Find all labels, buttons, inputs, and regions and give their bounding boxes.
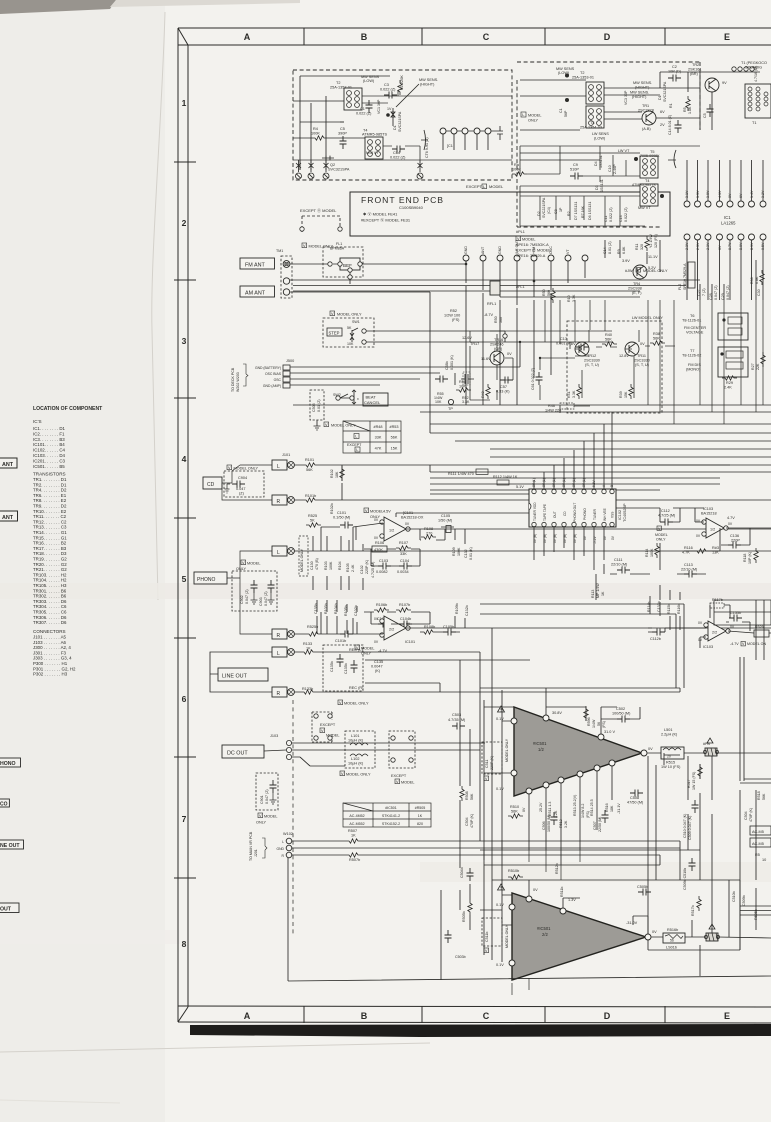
svg-text:Q2: Q2	[330, 163, 335, 167]
wire lineout	[210, 652, 530, 692]
svg-text:IC201. . . . . . C3: IC201. . . . . . C3	[33, 458, 66, 463]
svg-text:R511b: R511b	[560, 887, 564, 897]
svg-text:100K: 100K	[329, 561, 333, 570]
svg-text:C510b: C510b	[732, 891, 736, 902]
label MODEL ONLY boxed	[655, 526, 668, 542]
arrows beat	[352, 390, 356, 404]
svg-text:IC102. . . . . . C4: IC102. . . . . . C4	[33, 448, 66, 453]
svg-text:R113: R113	[591, 590, 595, 598]
svg-text:12.8V: 12.8V	[619, 354, 629, 358]
svg-text:OSC: OSC	[274, 378, 282, 382]
svg-text:C901: C901	[260, 795, 264, 804]
left strip row ticks	[174, 162, 196, 878]
label M MODEL 4.5V ONLY	[364, 508, 391, 519]
svg-text:STK4152-2: STK4152-2	[382, 822, 400, 826]
label M MODEL ONLY (step)	[330, 311, 362, 317]
svg-text:C112: C112	[661, 509, 670, 513]
cut box NE OUT	[0, 840, 24, 849]
svg-text:0.1V: 0.1V	[496, 903, 504, 907]
svg-text:IC101: IC101	[405, 640, 415, 644]
svg-text:C30: C30	[757, 289, 761, 296]
svg-text:TR305. . . . . . C6: TR305. . . . . . C6	[33, 610, 67, 615]
svg-text:C511: C511	[485, 760, 489, 768]
svg-text:GND (AMP): GND (AMP)	[263, 384, 281, 388]
svg-text:0V: 0V	[652, 930, 657, 934]
svg-text:C14 8.01 (Z): C14 8.01 (Z)	[668, 115, 672, 135]
svg-text:R: R	[277, 691, 281, 697]
svg-text:10P (D): 10P (D)	[668, 70, 682, 74]
svg-text:0.0082: 0.0082	[376, 570, 388, 574]
svg-text:J300 . . . . . . . A2, 4: J300 . . . . . . . A2, 4	[33, 645, 71, 650]
vertical fold line	[152, 12, 165, 600]
svg-text:C510 0.047 (K): C510 0.047 (K)	[683, 814, 687, 838]
svg-text:R36: R36	[750, 277, 754, 284]
svg-text:MODEL ONLY: MODEL ONLY	[344, 702, 369, 706]
svg-text:4.7/16 (M): 4.7/16 (M)	[754, 66, 758, 82]
wires phono row	[294, 523, 771, 590]
IC1 left bracket wire	[668, 150, 676, 168]
svg-text:R104: R104	[338, 561, 342, 570]
box FM ANT	[240, 258, 275, 269]
frame bottom lines	[178, 1006, 771, 1007]
svg-text:TR13. . . . . . . C3: TR13. . . . . . . C3	[33, 525, 67, 530]
svg-text:1/50 (M): 1/50 (M)	[438, 519, 453, 523]
svg-text:MODEL ONLY: MODEL ONLY	[300, 548, 304, 572]
IC1 pin stems up	[687, 160, 763, 201]
svg-text:FL1: FL1	[336, 242, 342, 246]
label M MODEL ONLY dc	[340, 771, 371, 777]
svg-text:L102: L102	[351, 757, 359, 761]
svg-text:(BR): (BR)	[690, 72, 699, 76]
pins triangle1 top edge	[543, 715, 549, 721]
svg-text:5K: 5K	[310, 519, 315, 523]
svg-text:C130: C130	[310, 561, 314, 570]
wires mid strip verticals	[605, 240, 756, 300]
svg-text:TR11: TR11	[637, 354, 646, 358]
svg-text:BA15218: BA15218	[701, 512, 717, 516]
svg-text:0.047 (Z): 0.047 (Z)	[245, 589, 249, 604]
svg-text:MW VT: MW VT	[366, 151, 379, 155]
svg-text:0V: 0V	[374, 518, 379, 522]
pins triangle2 top edge	[526, 896, 532, 902]
IC1 lower pin stems down	[687, 240, 763, 300]
svg-text:9V: 9V	[722, 81, 727, 85]
wires mid box horizontals	[293, 90, 512, 170]
crease line below bar	[0, 1043, 430, 1052]
pin drops triangle2 bottom	[512, 978, 529, 995]
svg-text:MODEL: MODEL	[655, 533, 668, 537]
connector RFL1 box	[490, 281, 500, 295]
svg-text:T2: T2	[336, 81, 340, 85]
svg-text:R510: R510	[510, 805, 519, 809]
svg-text:J201: J201	[254, 849, 258, 857]
svg-text:0.022 (Z): 0.022 (Z)	[390, 156, 406, 160]
IC102 box	[529, 489, 616, 527]
svg-text:T6: T6	[690, 314, 694, 318]
box DC OUT	[222, 745, 264, 758]
svg-text:SVC321SPA: SVC321SPA	[328, 168, 350, 172]
box BEAT CANCEL	[363, 393, 388, 406]
svg-text:6V: 6V	[660, 110, 665, 114]
grid numbers left	[182, 98, 187, 949]
dashed box C511	[482, 742, 502, 774]
svg-text:22/10 (M): 22/10 (M)	[611, 563, 628, 567]
svg-text:R50: R50	[542, 289, 546, 296]
svg-text:R5: R5	[683, 107, 687, 112]
svg-text:(E, F): (E, F)	[632, 291, 642, 295]
svg-text:LINE OUT: LINE OUT	[222, 674, 248, 680]
svg-text:1.4V: 1.4V	[750, 190, 754, 198]
svg-text:2/2: 2/2	[389, 628, 394, 632]
svg-text:MODEL: MODEL	[522, 238, 536, 242]
svg-text:E: E	[724, 32, 730, 42]
svg-text:5.1V: 5.1V	[516, 485, 524, 489]
op-amp IC101 2/2	[374, 616, 411, 644]
svg-text:VC1 30P: VC1 30P	[377, 99, 381, 114]
svg-text:MODEL ONLY: MODEL ONLY	[505, 924, 509, 948]
op-amp IC101 1/2	[374, 517, 410, 541]
svg-text:TRANSISTORS: TRANSISTORS	[33, 472, 66, 477]
svg-text:0V: 0V	[406, 622, 411, 626]
svg-text:T1 (PEGKOCO: T1 (PEGKOCO	[741, 61, 767, 65]
svg-text:25A-1353-01: 25A-1353-01	[330, 86, 352, 90]
svg-text:4.7/25 (M): 4.7/25 (M)	[371, 562, 375, 578]
svg-text:33K: 33K	[375, 436, 382, 440]
svg-text:(S, T, U): (S, T, U)	[585, 363, 600, 367]
svg-text:R516: R516	[605, 803, 609, 812]
svg-text:R: R	[277, 499, 281, 505]
svg-text:R517b: R517b	[691, 905, 695, 916]
pin drops triangle1 bottom	[529, 766, 612, 865]
wire 4.5V rail	[396, 513, 530, 517]
svg-text:LOCATION OF COMPONENT: LOCATION OF COMPONENT	[33, 406, 103, 412]
bottom strip ticks	[304, 1006, 665, 1023]
svg-text:MW SENS.: MW SENS.	[633, 81, 652, 85]
svg-text:IC3. . . . . . . . B3: IC3. . . . . . . . B3	[33, 437, 65, 442]
pin phono L	[288, 548, 295, 555]
svg-text:0.0047: 0.0047	[371, 665, 383, 669]
capacitor C1	[366, 100, 373, 113]
svg-text:8.01 (Z): 8.01 (Z)	[608, 241, 612, 254]
svg-text:4.5V: 4.5V	[383, 510, 391, 514]
svg-text:#R505: #R505	[415, 806, 426, 810]
svg-text:R512: R512	[559, 819, 563, 828]
svg-text:6: 6	[182, 694, 187, 704]
svg-text:10P (K): 10P (K)	[748, 552, 752, 564]
svg-text:PHONO OUT: PHONO OUT	[573, 503, 577, 522]
crease bands	[0, 583, 771, 599]
wires triangle2 top	[529, 880, 648, 934]
svg-text:D1: D1	[393, 125, 397, 130]
bus RFL1	[293, 286, 686, 298]
svg-text:33K: 33K	[400, 552, 407, 556]
svg-text:L: L	[522, 113, 524, 117]
transformer T2r	[586, 82, 604, 104]
svg-text:7 (Z): 7 (Z)	[702, 288, 706, 296]
svg-text:R29: R29	[726, 381, 733, 385]
svg-text:C509b: C509b	[742, 895, 746, 906]
svg-text:TR9. . . . . . . . D2: TR9. . . . . . . . D2	[33, 504, 67, 509]
svg-text:C104b: C104b	[400, 617, 411, 621]
frame bottom corner diagonal	[178, 1007, 188, 1022]
svg-text:20: 20	[667, 755, 671, 759]
svg-text:R115b: R115b	[667, 604, 671, 614]
svg-text:CONNECTORS: CONNECTORS	[33, 629, 66, 634]
svg-text:✱ Ⓥ MODEL FE41: ✱ Ⓥ MODEL FE41	[363, 211, 398, 217]
svg-text:560: 560	[547, 290, 551, 296]
cut box ANT (FM)	[0, 458, 17, 468]
top strip ticks	[304, 28, 665, 45]
J500 pin labels	[255, 366, 282, 388]
svg-text:C902: C902	[240, 595, 244, 604]
svg-text:1/2: 1/2	[538, 747, 544, 752]
svg-text:TUNER: TUNER	[593, 508, 597, 520]
svg-text:BEAT: BEAT	[366, 395, 377, 400]
svg-text:R107b: R107b	[399, 603, 410, 607]
svg-text:0.1V: 0.1V	[496, 717, 504, 721]
svg-text:100/50 (M): 100/50 (M)	[547, 815, 551, 832]
svg-text:15K: 15K	[391, 447, 398, 451]
svg-text:2/2: 2/2	[542, 932, 548, 937]
svg-text:ONLY: ONLY	[256, 821, 267, 825]
svg-text:PHONO: PHONO	[197, 577, 215, 583]
svg-text:C5: C5	[703, 113, 707, 118]
antenna coil symbol 3	[323, 160, 329, 179]
svg-text:R50: R50	[494, 316, 498, 323]
svg-text:100K: 100K	[650, 548, 654, 557]
svg-text:OSC BIAS: OSC BIAS	[265, 372, 282, 376]
transformer T2	[344, 88, 362, 110]
svg-text:TO DECK PCB: TO DECK PCB	[231, 367, 235, 392]
svg-text:470P (K): 470P (K)	[470, 814, 474, 828]
svg-text:TR307. . . . . . D6: TR307. . . . . . D6	[33, 620, 67, 625]
svg-text:MODEL: MODEL	[489, 184, 504, 189]
svg-text:IC'S: IC'S	[33, 419, 42, 424]
svg-text:C2: C2	[672, 65, 677, 69]
bus verticals into row4	[545, 300, 763, 424]
svg-text:MODEL: MODEL	[528, 114, 542, 118]
warning triangle 2	[498, 884, 505, 890]
svg-text:390P: 390P	[338, 132, 347, 136]
svg-text:J101: J101	[282, 453, 290, 457]
svg-text:10: 10	[762, 858, 766, 862]
svg-text:TR18. . . . . . . D3: TR18. . . . . . . D3	[33, 551, 67, 556]
svg-text:D7 1SS131: D7 1SS131	[574, 202, 578, 220]
box R (phono)	[272, 629, 287, 639]
svg-text:R49: R49	[481, 391, 485, 398]
label M MODEL ONLY (phono)	[236, 560, 261, 571]
box R (CD)	[272, 495, 287, 505]
box L (CD)	[272, 460, 287, 470]
svg-text:5.2V: 5.2V	[648, 266, 656, 270]
svg-text:11.1V: 11.1V	[648, 255, 658, 259]
antenna coil symbol 1	[296, 160, 302, 179]
black bottom bar	[190, 1024, 771, 1037]
svg-text:T8-1126-01: T8-1126-01	[682, 319, 701, 323]
svg-text:0.047: 0.047	[236, 487, 246, 491]
svg-text:L: L	[277, 651, 280, 657]
check box c511b	[484, 948, 489, 953]
svg-text:TR17. . . . . . . B3: TR17. . . . . . . B3	[33, 546, 67, 551]
svg-text:0V: 0V	[374, 536, 379, 540]
svg-text:TR16. . . . . . . B2: TR16. . . . . . . B2	[33, 541, 67, 546]
svg-text:C132b: C132b	[465, 605, 469, 616]
svg-text:J500: J500	[286, 359, 294, 363]
svg-text:C507: C507	[593, 821, 597, 830]
right rails pair	[740, 600, 771, 950]
junction dots	[465, 263, 468, 266]
svg-text:12.6V: 12.6V	[462, 336, 472, 340]
FRONT END PCB box	[350, 192, 670, 236]
svg-text:3: 3	[182, 336, 187, 346]
svg-text:GND: GND	[464, 246, 468, 254]
svg-text:56P: 56P	[564, 110, 568, 117]
svg-text:R39: R39	[619, 391, 623, 398]
svg-text:3.2K: 3.2K	[564, 820, 568, 828]
wires LW box	[520, 146, 700, 226]
svg-text:TR306. . . . . . D6: TR306. . . . . . D6	[33, 615, 67, 620]
pin lineout L	[288, 649, 295, 656]
svg-text:TR4: TR4	[633, 282, 640, 286]
svg-text:47/50 (M): 47/50 (M)	[627, 801, 644, 805]
power rails horizontal	[480, 688, 740, 925]
svg-text:56K: 56K	[511, 810, 518, 814]
svg-text:NE OUT: NE OUT	[0, 843, 20, 849]
svg-text:L: L	[277, 550, 280, 556]
svg-text:C104: C104	[400, 559, 409, 563]
svg-text:D: D	[604, 1011, 611, 1021]
pin triangle2 output	[645, 934, 651, 940]
rotated caps/res phono network	[300, 548, 375, 578]
svg-text:IC103: IC103	[703, 645, 713, 649]
svg-text:1/2: 1/2	[710, 528, 715, 532]
svg-text:VT: VT	[566, 249, 570, 254]
svg-text:C61 0.022 (Z): C61 0.022 (Z)	[531, 368, 535, 390]
labels L GND R	[276, 840, 284, 858]
svg-text:C102: C102	[360, 565, 364, 574]
svg-text:R103: R103	[324, 561, 328, 570]
svg-text:R106b: R106b	[376, 603, 387, 607]
svg-text:25A-1353-01: 25A-1353-01	[572, 76, 594, 80]
svg-text:IC103: IC103	[703, 507, 713, 511]
dashed box MW tuning (left)	[293, 70, 512, 180]
ground C904	[225, 484, 231, 493]
dashed L MODEL ONLY box	[521, 112, 542, 123]
svg-text:AM ANT: AM ANT	[245, 291, 266, 297]
svg-text:MODEL: MODEL	[247, 562, 261, 566]
wire top bus left box	[293, 76, 390, 170]
top-left dark paper edge	[0, 0, 116, 14]
svg-text:(FS): (FS)	[602, 721, 606, 728]
dashed box C511b	[482, 918, 502, 946]
svg-text:C135b: C135b	[330, 661, 334, 672]
svg-text:C503b: C503b	[455, 955, 466, 959]
frame outer top line	[178, 27, 771, 29]
IC102 bottom voltage labels rotated	[533, 534, 615, 544]
svg-text:R112 1/4W 1K: R112 1/4W 1K	[493, 475, 518, 479]
svg-text:0V: 0V	[405, 522, 410, 526]
svg-text:R508: R508	[465, 791, 469, 800]
label M MODEL ONLY + -4.7V	[355, 645, 388, 656]
svg-text:C5: C5	[340, 127, 345, 131]
svg-text:2V: 2V	[660, 123, 665, 127]
svg-text:10μH (K): 10μH (K)	[348, 739, 364, 743]
resistor R1 220K rotated	[398, 80, 402, 95]
svg-text:AC-4M52: AC-4M52	[349, 814, 364, 818]
trimmer CT6	[421, 130, 428, 150]
svg-text:LW VT: LW VT	[618, 149, 630, 153]
svg-text:C100SB9040: C100SB9040	[399, 205, 424, 210]
grid letters top	[244, 32, 730, 42]
svg-text:DC OUT: DC OUT	[227, 751, 248, 757]
svg-text:SVC321SPA: SVC321SPA	[663, 81, 667, 102]
svg-text:C508: C508	[630, 796, 639, 800]
svg-text:-31.1V: -31.1V	[617, 803, 621, 814]
svg-text:(S, T, U): (S, T, U)	[635, 363, 650, 367]
svg-text:MODEL: MODEL	[326, 734, 340, 738]
svg-text:22K: 22K	[756, 363, 760, 370]
svg-text:C903: C903	[259, 597, 263, 606]
wires J500 to right	[290, 342, 520, 385]
svg-text:56K: 56K	[653, 337, 660, 341]
screw dot	[565, 74, 569, 78]
mid rails between amps	[484, 840, 580, 880]
svg-text:0V: 0V	[522, 807, 526, 812]
svg-text:T1: T1	[752, 121, 756, 125]
svg-text:R4: R4	[313, 127, 318, 131]
box STEP	[327, 328, 342, 336]
svg-text:R505b: R505b	[462, 911, 466, 922]
svg-text:MW VT: MW VT	[638, 206, 651, 210]
op-amp IC501 1/2 (big gray triangle)	[514, 707, 642, 796]
svg-text:REC (R): REC (R)	[349, 686, 364, 690]
svg-text:(K): (K)	[375, 669, 381, 673]
svg-text:#FL1: #FL1	[516, 285, 525, 289]
svg-text:0V: 0V	[698, 621, 703, 625]
svg-text:ANT: ANT	[2, 515, 14, 521]
svg-text:MODEL ONLY: MODEL ONLY	[337, 313, 362, 317]
svg-text:CD: CD	[563, 511, 567, 516]
svg-text:T3: T3	[590, 121, 594, 125]
svg-text:IC103. . . . . . D4: IC103. . . . . . D4	[33, 453, 66, 458]
svg-text:25A-1354-03: 25A-1354-03	[580, 126, 602, 130]
svg-text:C509 0.047 (K): C509 0.047 (K)	[688, 816, 692, 840]
svg-text:#IC501: #IC501	[537, 926, 551, 931]
svg-text:2: 2	[182, 218, 187, 228]
svg-text:MODEL ONLY: MODEL ONLY	[505, 738, 509, 762]
pins J103	[286, 740, 291, 759]
svg-text:L: L	[355, 435, 357, 439]
svg-text:P302 . . . . . . . H3: P302 . . . . . . . H3	[33, 672, 68, 677]
svg-text:3.9V: 3.9V	[622, 259, 630, 263]
svg-text:(A.B): (A.B)	[642, 127, 651, 131]
svg-text:C57: C57	[500, 385, 507, 389]
svg-text:TR4. . . . . . . . D2: TR4. . . . . . . . D2	[33, 488, 67, 493]
cut box OUT	[0, 903, 19, 913]
IC1 upper pins row	[684, 201, 766, 207]
svg-text:2.3V: 2.3V	[696, 242, 700, 250]
box BEF	[340, 258, 360, 270]
IC1 lower pin labels rotated	[685, 242, 765, 250]
svg-text:C58b: C58b	[445, 361, 449, 370]
svg-text:#EXCEPT Ⓥ MODEL FE31: #EXCEPT Ⓥ MODEL FE31	[361, 217, 411, 223]
transistor TR4 2SC938	[633, 265, 647, 279]
box AM ANT	[240, 286, 275, 297]
pin labels rotated	[464, 239, 570, 254]
svg-text:510P: 510P	[570, 168, 579, 172]
svg-text:7: 7	[182, 814, 187, 824]
svg-text:47K: 47K	[375, 447, 382, 451]
